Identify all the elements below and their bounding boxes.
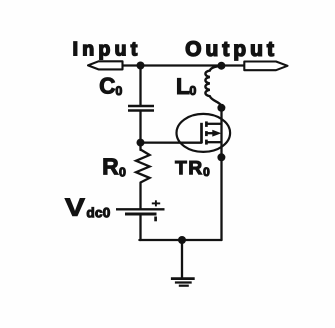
wire bottom rail xyxy=(139,239,221,241)
label Vsub xyxy=(87,207,110,217)
label V xyxy=(65,199,85,216)
label Input xyxy=(74,42,137,59)
node output/top-right junction xyxy=(217,62,225,70)
node ground junction xyxy=(178,236,186,244)
node gate junction xyxy=(137,139,145,147)
transistor TR0 (MOSFET) xyxy=(177,114,231,152)
ground xyxy=(171,240,195,286)
dc source Vdc0 (battery) xyxy=(116,200,165,221)
wire right vertical: L0 bottom junction through TR0 to bottom rail xyxy=(220,108,222,240)
wire left vertical: resistor R0 down to Vdc0 xyxy=(139,183,141,210)
inductor L0 xyxy=(205,66,221,108)
node input/top-left junction xyxy=(137,62,145,70)
wire top rail from Input port to Output port xyxy=(122,64,245,66)
label TRsub xyxy=(204,168,210,177)
label Csub xyxy=(116,86,122,95)
label R xyxy=(104,159,119,175)
wire left vertical: input junction down to capacitor C0 xyxy=(139,66,141,105)
port Input (left connector pad) xyxy=(88,61,123,69)
label Output xyxy=(186,41,274,60)
label TR xyxy=(175,161,202,174)
capacitor C0 xyxy=(128,106,154,111)
node source junction xyxy=(217,153,225,161)
label C xyxy=(100,78,115,94)
wire left vertical: Vdc0 down to bottom rail xyxy=(139,214,141,240)
wire left vertical: capacitor C0 down to gate junction and resistor R0 xyxy=(139,111,141,150)
label Rsub xyxy=(120,168,126,177)
label Lsub xyxy=(190,86,196,95)
label L xyxy=(178,78,190,94)
port Output (right connector pad) xyxy=(244,62,287,71)
node L0-drain junction xyxy=(217,104,225,112)
wire gate lead from left junction to TR0 gate xyxy=(141,141,202,143)
resistor R0 xyxy=(136,150,150,183)
